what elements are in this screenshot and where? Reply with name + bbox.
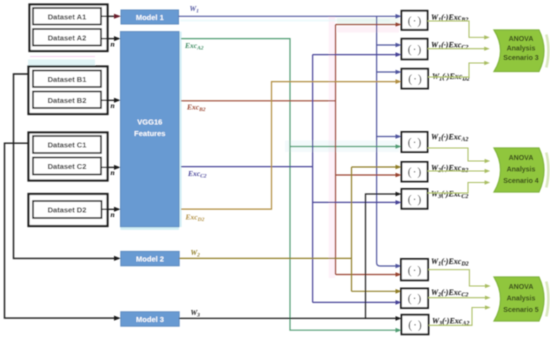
- model 3 box: [121, 312, 179, 326]
- svg-text:n: n: [111, 101, 115, 110]
- dataset B2 box: [33, 92, 101, 109]
- svg-text:Scenario 3: Scenario 3: [503, 55, 539, 62]
- connector box6 to ANOVA scenario 4: [428, 183, 487, 194]
- svg-text:Scenario 5: Scenario 5: [503, 307, 539, 314]
- ANOVA scenario 4 shape: [546, 153, 548, 188]
- dot product box 9: [402, 315, 429, 335]
- W2 arrowheads: [396, 165, 402, 170]
- wire Exc_B2 branch to box7: [336, 274, 398, 276]
- wire group B to model 2: [14, 74, 115, 258]
- wire W1 branch to box2: [377, 44, 398, 46]
- svg-text:Scenario 4: Scenario 4: [503, 178, 539, 185]
- svg-text:( · ): ( · ): [408, 320, 422, 332]
- wire dataset C2 to VGG16, n label: [101, 166, 115, 168]
- model 1 box: [121, 10, 179, 24]
- svg-text:Analysis: Analysis: [507, 295, 536, 302]
- wire Exc_C2 vertical: [312, 55, 314, 303]
- wire dataset B2 to VGG16, n label: [101, 99, 115, 101]
- wire W2 branch to box8: [352, 290, 398, 292]
- dataset group C outer box: [29, 133, 108, 181]
- connector box2 to ANOVA scenario 3: [428, 48, 487, 50]
- svg-text:( · ): ( · ): [408, 265, 422, 277]
- dataset A1 box: [33, 8, 101, 25]
- svg-text:Model 3: Model 3: [136, 315, 164, 324]
- svg-text:( · ): ( · ): [408, 293, 422, 305]
- connector box1 to ANOVA scenario 3: [428, 21, 487, 37]
- svg-text:( · ): ( · ): [408, 137, 422, 149]
- dot product box 3: [402, 69, 429, 89]
- wire Exc_A2 from VGG16: [181, 39, 398, 331]
- svg-text:Analysis: Analysis: [507, 46, 536, 53]
- dot product box 5: [402, 162, 428, 182]
- svg-text:Dataset C2: Dataset C2: [48, 162, 87, 171]
- W1 arrowheads into dot boxes: [396, 14, 402, 19]
- svg-text:Dataset A2: Dataset A2: [48, 33, 87, 42]
- connector box7 to ANOVA scenario 5: [428, 270, 487, 286]
- W3 arrowheads: [396, 316, 402, 321]
- wire W2 vertical: [351, 167, 353, 291]
- model 2 box: [121, 251, 179, 265]
- svg-text:Features: Features: [134, 129, 165, 138]
- svg-text:ANOVA: ANOVA: [509, 36, 534, 43]
- wire Exc_B2 from VGG16: [181, 100, 336, 102]
- connector box3 to ANOVA scenario 3: [428, 63, 486, 77]
- dataset D2 box: [33, 201, 102, 218]
- svg-text:n: n: [111, 210, 115, 219]
- wire Exc_D2 from VGG16: [181, 82, 398, 210]
- wire Exc_C2 branch to box6: [313, 201, 398, 203]
- wire Exc_C2 branch to box2: [313, 54, 398, 56]
- svg-text:Dataset B2: Dataset B2: [48, 96, 87, 105]
- svg-text:Analysis: Analysis: [507, 166, 536, 173]
- connector box5 to ANOVA scenario 4: [428, 170, 487, 172]
- svg-text:ANOVA: ANOVA: [509, 155, 534, 162]
- Exc_B2 arrowheads: [396, 22, 402, 27]
- ANOVA scenario 3 shape: [546, 35, 548, 68]
- svg-text:VGG16: VGG16: [137, 118, 162, 127]
- svg-text:Model 1: Model 1: [136, 13, 164, 22]
- Exc_C2 arrowheads: [396, 52, 402, 57]
- wire dataset D2 to VGG16, n label: [102, 208, 115, 210]
- svg-text:ANOVA: ANOVA: [509, 284, 534, 291]
- dot product box 7: [401, 259, 428, 280]
- svg-text:( · ): ( · ): [408, 194, 422, 206]
- dataset group B outer box: [29, 67, 108, 115]
- dataset A2 box: [33, 29, 101, 46]
- wire W1 main from model 1: [179, 15, 398, 17]
- wire W2 from model 2: [179, 257, 351, 259]
- wire dataset A1 to model 1: [101, 15, 115, 17]
- svg-text:Model 2: Model 2: [136, 255, 164, 264]
- wire group C to model 3: [5, 143, 115, 318]
- dataset group D outer box: [29, 194, 108, 226]
- dot product box 8: [401, 289, 428, 309]
- svg-text:( · ): ( · ): [408, 15, 422, 27]
- dataset C1 box: [33, 136, 101, 153]
- Exc_D2 arrowhead: [396, 79, 402, 84]
- wire Exc_C2 from VGG16: [181, 166, 313, 168]
- dataset B1 box: [33, 71, 101, 88]
- Exc_A2 arrowheads: [396, 144, 402, 149]
- wire dataset A2 to VGG16, n label: [101, 38, 115, 40]
- wire W1 branch to box3: [377, 71, 398, 73]
- svg-text:Dataset B1: Dataset B1: [48, 75, 87, 84]
- svg-text:( · ): ( · ): [408, 44, 422, 56]
- connector box9 to ANOVA scenario 5: [429, 308, 488, 326]
- wire Exc_B2 branch to box5: [336, 174, 398, 176]
- svg-text:Dataset C1: Dataset C1: [48, 141, 87, 150]
- svg-text:n: n: [111, 168, 115, 177]
- wire Exc_B2 vertical: [335, 25, 337, 275]
- wire W3 from model 3: [179, 317, 397, 319]
- connector box4 to ANOVA scenario 4: [428, 148, 487, 161]
- wire Exc_A2 branch to box4: [290, 146, 398, 148]
- ANOVA scenario 5 shape: [546, 282, 548, 317]
- svg-text:n: n: [111, 39, 115, 48]
- dot product box 1: [402, 11, 428, 30]
- connector box8 to ANOVA scenario 5: [428, 297, 487, 299]
- dataset group A outer box: [30, 5, 108, 52]
- wire W2 branch to box5: [352, 166, 398, 168]
- wire W1 branch to box4: [377, 136, 398, 138]
- svg-text:Dataset A1: Dataset A1: [48, 12, 87, 21]
- svg-text:Dataset D2: Dataset D2: [48, 206, 87, 215]
- svg-text:( · ): ( · ): [408, 167, 422, 179]
- wire Exc_B2 branch to box1: [336, 24, 398, 26]
- wire Exc_C2 branch to box8: [313, 301, 398, 303]
- wire W3 vertical: [366, 194, 398, 318]
- dataset C2 box: [33, 158, 101, 175]
- VGG16 features box: [121, 32, 180, 227]
- svg-text:( · ): ( · ): [408, 74, 422, 86]
- dot product box 6: [402, 189, 428, 209]
- dot product box 2: [402, 39, 428, 60]
- node W1 junction: [377, 16, 398, 266]
- dot product box 4: [402, 132, 428, 152]
